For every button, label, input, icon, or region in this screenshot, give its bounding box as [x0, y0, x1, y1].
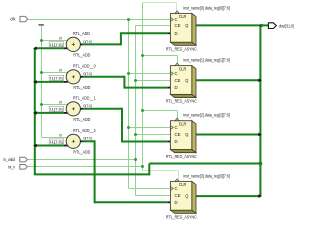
op-amp adder U3 RTL_ADD__1 — [66, 102, 80, 116]
svg-text:clk: clk — [10, 16, 16, 21]
wire clk vertical distribution — [128, 20, 130, 189]
svg-text:I0: I0 — [59, 133, 62, 137]
svg-text:inst_name[2].data_reg[2][7:0]: inst_name[2].data_reg[2][7:0] — [183, 113, 230, 118]
wire rst_n drop to reg1 CLR wedge — [176, 3, 178, 12]
svg-text:O[7:0]: O[7:0] — [83, 136, 92, 141]
bus reg4 Q output — [192, 194, 262, 198]
svg-text:O[7:0]: O[7:0] — [83, 71, 92, 76]
svg-text:inst_name[0].data_reg[0][7:0]: inst_name[0].data_reg[0][7:0] — [183, 5, 230, 10]
svg-text:RTL_ADD__2: RTL_ADD__2 — [73, 128, 96, 133]
bus adder4 output to reg4 D — [82, 140, 170, 203]
svg-text:C: C — [175, 186, 178, 191]
bus tap to adder4 I1 — [33, 144, 68, 148]
wire dout bus to output port — [260, 24, 268, 26]
reg2 CLR wedge — [175, 63, 179, 65]
wire const branch to adder3 I0 — [42, 104, 69, 106]
junction clk/reg3 — [127, 126, 130, 129]
svg-text:inst_name[1].data_reg[1][7:0]: inst_name[1].data_reg[1][7:0] — [183, 58, 230, 63]
svg-text:RTL_ADD__1: RTL_ADD__1 — [73, 95, 96, 100]
junction const/adder2 — [40, 71, 43, 74]
bus adder3 output to reg3 D — [82, 108, 170, 143]
pin label adder3 I1[7:0] boxed — [49, 106, 63, 111]
svg-text:RTL_ADD: RTL_ADD — [73, 31, 91, 36]
junction clk/reg1 — [127, 18, 130, 21]
wire in_valid branch to reg3 CE — [136, 134, 171, 136]
wire clk branch to reg2 C — [129, 73, 171, 75]
svg-text:RTL_ADD__0: RTL_ADD__0 — [73, 63, 96, 68]
wire rst_n bottom jog to reg4 CLR — [143, 170, 179, 172]
svg-text:CLR: CLR — [179, 121, 187, 126]
bus dout vertical collector — [259, 24, 261, 196]
register U7 inst_name[2].data_reg[2][7:0] RTL_REG_ASYNC — [170, 121, 196, 153]
svg-text:inst_name[3].data_reg[3][7:0]: inst_name[3].data_reg[3][7:0] — [183, 173, 230, 178]
op-amp adder U4 RTL_ADD__2 — [66, 134, 80, 148]
svg-text:CE: CE — [175, 78, 181, 83]
register U5 inst_name[0].data_reg[0][7:0] RTL_REG_ASYNC — [170, 13, 196, 45]
junction rst_n/reg3 CLR — [141, 109, 144, 112]
junction const/adder1 — [40, 39, 43, 42]
reg1 CLR wedge — [175, 11, 179, 13]
wire rst_n horizontal from port — [27, 166, 142, 168]
reg2 clock chevron — [170, 72, 173, 76]
svg-text:RTL_REG_ASYNC: RTL_REG_ASYNC — [166, 154, 197, 159]
bus tap to adder1 I1 — [33, 47, 68, 51]
svg-text:D: D — [175, 139, 178, 144]
reg4 clock chevron — [170, 187, 173, 191]
wire rst_n branch to reg2 CLR — [143, 55, 178, 57]
pin label adder1 I1[7:0] boxed — [49, 42, 63, 47]
bus tap to adder3 I1 — [33, 111, 68, 115]
junction feedback/dout bus — [259, 162, 263, 166]
wire rst_n drop to reg3 CLR wedge — [177, 111, 179, 119]
input port clk — [10, 16, 27, 21]
wire in_valid horizontal from port — [27, 159, 135, 161]
svg-text:RTL_REG_ASYNC: RTL_REG_ASYNC — [166, 215, 197, 220]
svg-text:D: D — [175, 85, 178, 90]
reg3 clock chevron — [170, 126, 173, 130]
register U6 inst_name[1].data_reg[1][7:0] RTL_REG_ASYNC — [170, 66, 196, 98]
junction in_valid feed — [134, 158, 137, 161]
svg-text:dout[31:0]: dout[31:0] — [279, 23, 294, 28]
svg-text:CLR: CLR — [179, 182, 187, 187]
svg-text:CE: CE — [175, 23, 181, 28]
adder3 output stub — [80, 108, 82, 110]
svg-text:I1[7:0]: I1[7:0] — [50, 108, 62, 112]
wire rst_n drop to reg2 CLR wedge — [177, 56, 179, 64]
wire rst_n top jog to reg1 CLR — [143, 2, 177, 4]
bus feedback upper horizontal to dout bus — [149, 163, 260, 165]
input port rst_n — [8, 164, 28, 169]
register U8 inst_name[3].data_reg[3][7:0] RTL_REG_ASYNC — [170, 181, 196, 213]
svg-text:C: C — [175, 71, 178, 76]
input port in_valid — [3, 157, 27, 162]
reg1 clock chevron — [170, 18, 173, 22]
svg-text:CLR: CLR — [179, 66, 187, 71]
svg-text:O[7:0]: O[7:0] — [83, 103, 92, 108]
bus reg1 Q output — [192, 24, 263, 28]
svg-text:D: D — [175, 31, 178, 36]
svg-text:I0: I0 — [59, 100, 62, 104]
svg-text:D: D — [175, 200, 178, 205]
bus tap to adder2 I1 — [33, 80, 68, 84]
svg-text:CE: CE — [175, 132, 181, 137]
svg-text:C: C — [175, 17, 178, 22]
op-amp adder U1 RTL_ADD — [66, 37, 80, 51]
bus feedback vertical left — [34, 48, 36, 174]
svg-text:I1[7:0]: I1[7:0] — [50, 140, 62, 144]
reg3 CLR wedge — [175, 118, 179, 120]
bus adder2 output to reg2 D — [82, 76, 170, 89]
wire rst_n drop to reg4 CLR wedge — [178, 171, 180, 180]
svg-text:CE: CE — [175, 193, 181, 198]
svg-text:RTL_REG_ASYNC: RTL_REG_ASYNC — [166, 99, 197, 104]
svg-text:I0: I0 — [59, 36, 62, 40]
junction rst_n/reg2 CLR — [141, 54, 144, 57]
bus reg2 Q output — [192, 79, 262, 83]
adder2 output stub — [80, 76, 82, 78]
wire in_valid branch to reg2 CE — [136, 80, 171, 82]
op-amp adder U2 RTL_ADD__0 — [66, 70, 80, 84]
adder4 output stub — [80, 140, 82, 142]
svg-text:in_valid: in_valid — [3, 157, 15, 162]
bus reg3 Q output — [192, 133, 262, 137]
output port dout[31:0] — [268, 23, 293, 29]
bus feedback jog vertical — [148, 164, 150, 176]
svg-text:CLR: CLR — [179, 14, 187, 19]
wire in_valid branch to reg4 CE — [136, 195, 171, 197]
wire in_valid vertical distribution — [135, 26, 137, 196]
wire rst_n vertical distribution — [142, 3, 144, 171]
wire in_valid branch to reg1 CE — [136, 25, 171, 27]
junction clk/reg2 — [127, 72, 130, 75]
junction rst_n feed — [141, 165, 144, 168]
wire clk branch to reg4 C — [129, 188, 171, 190]
svg-text:I0: I0 — [59, 68, 62, 72]
svg-text:O[7:0]: O[7:0] — [83, 39, 92, 44]
pin label adder4 I1[7:0] boxed — [49, 139, 63, 144]
svg-text:RTL_ADD: RTL_ADD — [73, 117, 91, 122]
adder1 output stub — [80, 43, 82, 45]
wire const branch to adder2 I0 — [42, 72, 69, 74]
svg-text:RTL_ADD: RTL_ADD — [73, 149, 91, 154]
svg-text:RTL_ADD: RTL_ADD — [73, 53, 91, 58]
svg-text:I1[7:0]: I1[7:0] — [50, 77, 62, 81]
wire const branch to adder1 I0 — [42, 40, 69, 42]
svg-text:RTL_ADD: RTL_ADD — [73, 85, 91, 90]
svg-text:C: C — [175, 125, 178, 130]
wire rst_n branch to reg3 CLR — [143, 110, 178, 112]
pin label adder2 I1[7:0] boxed — [49, 75, 63, 80]
bus adder1 output to reg1 D — [82, 32, 170, 45]
junction in_valid/reg2 CE — [134, 79, 137, 82]
junction in_valid/reg3 CE — [134, 133, 137, 136]
reg4 CLR wedge — [175, 179, 179, 181]
svg-text:rst_n: rst_n — [8, 164, 16, 169]
junction const/adder3 — [40, 103, 43, 106]
bus feedback bottom horizontal — [34, 173, 150, 175]
constant tie-off T symbol — [38, 24, 44, 26]
wire clk horizontal to reg1 C — [28, 19, 171, 21]
wire const branch to adder4 I0 — [42, 137, 69, 139]
wire clk branch to reg3 C — [129, 127, 171, 129]
wire const vertical — [41, 26, 43, 138]
svg-text:RTL_REG_ASYNC: RTL_REG_ASYNC — [166, 47, 197, 52]
svg-text:I1[7:0]: I1[7:0] — [50, 43, 62, 47]
